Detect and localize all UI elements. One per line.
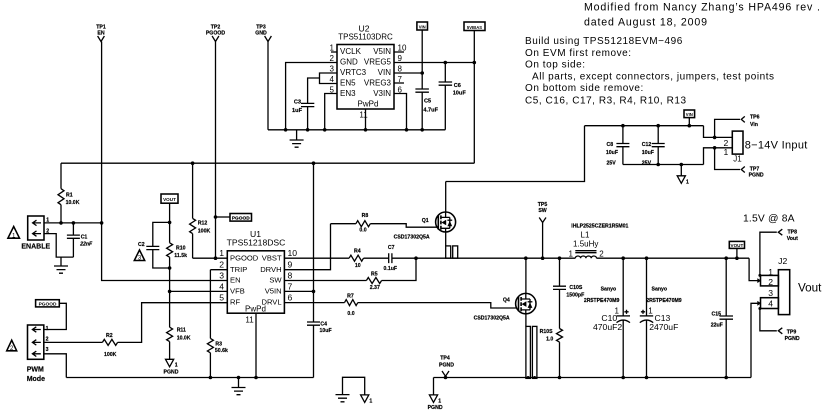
wire VOUT rail from L1	[597, 257, 750, 259]
svg-text:EN: EN	[97, 31, 104, 37]
ground tie: earth to PGND_1 bridge	[336, 377, 373, 404]
svg-text:CSD17302Q5A: CSD17302Q5A	[394, 235, 430, 241]
svg-text:PGOOD: PGOOD	[39, 302, 57, 308]
capacitor C6 10uF	[439, 82, 467, 97]
svg-text:2: 2	[219, 260, 224, 270]
svg-text:TRIP: TRIP	[230, 265, 247, 274]
pin number 3 (U2 VRTC3)	[330, 65, 335, 74]
svg-text:DRVH: DRVH	[260, 265, 281, 274]
capacitor C2	[138, 222, 170, 268]
connector J1 body	[732, 131, 743, 163]
svg-text:8: 8	[398, 65, 403, 74]
svg-text:All parts, except connectors,: All parts, except connectors, jumpers, t…	[532, 71, 775, 82]
test point TP2 (PGOOD)	[206, 25, 226, 42]
wire VOUT flag stub	[736, 248, 738, 258]
svg-text:EN3: EN3	[340, 89, 356, 98]
net-tie bars Q4 source to PGND	[526, 326, 537, 378]
OUTPUTBLOCK	[584, 214, 822, 380]
svg-text:10uF: 10uF	[320, 328, 332, 334]
svg-text:10.0K: 10.0K	[177, 336, 191, 342]
pin number 4 (U2 EN5)	[330, 75, 335, 84]
svg-text:Sanyo: Sanyo	[652, 286, 668, 292]
svg-text:C7: C7	[388, 245, 395, 251]
pin number 5 (U2 EN3)	[330, 86, 335, 95]
svg-text:1: 1	[686, 180, 689, 186]
pin number 9 (U2 VREG5)	[398, 54, 403, 63]
svg-text:IHLP2525CZER1R5M01: IHLP2525CZER1R5M01	[571, 223, 628, 229]
svg-text:dated August 18, 2009: dated August 18, 2009	[584, 17, 708, 29]
pin number 2 (U2 GND)	[330, 54, 335, 63]
svg-text:4: 4	[330, 75, 335, 84]
transistor Q4 CSD17302Q5A	[474, 293, 536, 321]
wire J1 pin1 from ground rail	[704, 148, 733, 165]
svg-text:1: 1	[438, 399, 441, 405]
svg-text:C12: C12	[642, 142, 652, 148]
wire DRVL net: U1 pin6 to R7	[284, 302, 344, 304]
svg-text:SW: SW	[538, 208, 546, 214]
svg-text:VBST: VBST	[262, 253, 282, 262]
svg-text:GND: GND	[340, 58, 358, 67]
wire input ground rail	[623, 164, 704, 166]
svg-text:1: 1	[330, 44, 335, 53]
svg-text:9: 9	[398, 54, 403, 63]
svg-text:1.0: 1.0	[546, 336, 553, 342]
svg-text:TPS51218DSC: TPS51218DSC	[227, 238, 286, 248]
net label PGOOD (flag near J3)	[36, 300, 60, 308]
capacitor C10 470uF Sanyo 2R5TPE470M9	[584, 258, 630, 377]
svg-text:4: 4	[219, 281, 224, 291]
resistor R12 100K	[190, 163, 211, 258]
test point TP3 (GND)	[255, 25, 271, 42]
svg-text:CSD17302Q5A: CSD17302Q5A	[474, 315, 510, 321]
svg-text:R2: R2	[106, 333, 113, 339]
capacitor C10S 1500pF (snubber)	[553, 258, 584, 328]
wire VIN column down through C5 to ground rail	[421, 30, 423, 130]
svg-text:1: 1	[175, 362, 178, 368]
wire Q4 drain to SW rail	[525, 258, 527, 293]
wire C3 bottom to ground rail	[307, 107, 309, 130]
wire EN net: TP1 column down to U1 pin3	[102, 42, 228, 281]
svg-text:R8: R8	[362, 213, 369, 219]
svg-text:Build using TPS51218EVM−496: Build using TPS51218EVM−496	[525, 36, 683, 47]
wire J1 pin2 from VIN rail	[704, 126, 733, 138]
capacitor C13 470uF Sanyo 2R5TPE470M9	[640, 258, 682, 377]
capacitor C5 4.7uF	[415, 89, 438, 114]
wire GND net: TP3 down to U2 ground rail	[267, 42, 269, 130]
svg-text:6: 6	[288, 293, 293, 303]
pin number 10 (U2 V5IN)	[394, 44, 407, 53]
wire EN net: J4 pin1 to TP1 column	[44, 222, 102, 224]
svg-text:TP9: TP9	[787, 330, 797, 336]
svg-text:100K: 100K	[104, 352, 117, 358]
net label 5VBIAS	[464, 22, 485, 31]
svg-text:On bottom side remove:: On bottom side remove:	[525, 83, 644, 94]
svg-text:2: 2	[768, 277, 773, 287]
svg-text:1.5uHy: 1.5uHy	[573, 240, 598, 249]
svg-text:C6: C6	[454, 83, 461, 89]
svg-text:0.0: 0.0	[347, 311, 354, 317]
svg-text:VRTC3: VRTC3	[340, 68, 367, 77]
svg-text:Q1: Q1	[422, 218, 429, 224]
U2BLOCK	[61, 22, 485, 165]
svg-text:470uF2: 470uF2	[593, 322, 622, 332]
wire R7 to Q4 gate	[358, 303, 516, 308]
svg-text:0.1uF: 0.1uF	[384, 266, 398, 272]
svg-text:10: 10	[288, 248, 298, 258]
svg-text:1: 1	[568, 249, 573, 258]
wire J3 pin3 to ground rail	[44, 354, 67, 378]
svg-text:V3IN: V3IN	[373, 89, 391, 98]
warning triangle 3	[134, 250, 144, 262]
svg-text:R10S: R10S	[540, 329, 554, 335]
svg-text:11.5k: 11.5k	[174, 253, 187, 259]
resistor R11 10.0K	[167, 291, 191, 359]
connector J3 body	[27, 325, 45, 383]
svg-text:SW: SW	[269, 276, 282, 285]
wire V5IN column from V5 rail to C4	[313, 163, 315, 377]
wire J4 pin2 to C1 bottom	[44, 234, 73, 258]
pin number 7 (U2 VREG3)	[394, 75, 404, 84]
svg-text:100K: 100K	[198, 229, 211, 235]
svg-text:2.37: 2.37	[370, 285, 380, 291]
svg-text:VOUT: VOUT	[163, 197, 176, 202]
wire VIN rail down and over to Q1 drain	[446, 126, 585, 182]
test point TP5 (SW)	[538, 202, 548, 258]
svg-text:PWM: PWM	[27, 367, 44, 374]
svg-text:2R5TPE470M9: 2R5TPE470M9	[646, 298, 682, 304]
net label VIN (above C5)	[417, 22, 428, 30]
svg-text:ENABLE: ENABLE	[21, 244, 50, 251]
warning triangle 1	[8, 227, 20, 240]
capacitor C7 0.1uF	[384, 245, 398, 272]
BOTTOM	[66, 356, 751, 411]
capacitor C8 10uF 25V	[606, 126, 630, 167]
wire Q4 source to net-tie	[525, 314, 527, 327]
ground (earth) at U2 rail	[290, 130, 304, 147]
svg-text:TP4: TP4	[440, 356, 450, 362]
ground (earth) at J4/C1	[54, 257, 68, 273]
wire R5 up to SW rail	[382, 258, 416, 280]
svg-text:PGND: PGND	[439, 363, 454, 369]
wire SW net: U1 pin8 to R5	[284, 280, 366, 282]
svg-text:10uF: 10uF	[453, 91, 467, 97]
svg-text:Modified from Nancy Zhang’s HP: Modified from Nancy Zhang’s HPA496 rev .	[584, 2, 821, 14]
wire PGOOD flag to J3 pin1	[44, 303, 67, 329]
svg-text:RF: RF	[230, 298, 240, 307]
INPUTBLOCK	[446, 110, 808, 186]
svg-text:2: 2	[46, 337, 49, 343]
node EN junction at R1/J4	[100, 221, 104, 225]
capacitor C1 22nF	[67, 223, 93, 257]
svg-text:R1: R1	[66, 193, 73, 199]
svg-text:Sanyo: Sanyo	[601, 286, 617, 292]
test point TP4 (PGND)	[439, 356, 454, 380]
svg-text:V5IN: V5IN	[265, 287, 282, 296]
svg-text:R3: R3	[215, 341, 222, 347]
svg-text:J2: J2	[778, 256, 787, 266]
wire U1 pin11 PwPd to ground rail	[255, 313, 257, 377]
svg-text:Vout: Vout	[787, 236, 798, 242]
wire VBST net: U1 pin10 to R4	[284, 257, 349, 259]
POWERSTAGE	[284, 182, 749, 380]
wire U2 pin11 PwPd to ground rail	[365, 109, 367, 130]
net-tie bars Q1 source to SW	[446, 246, 458, 258]
svg-text:VCLK: VCLK	[340, 47, 362, 56]
resistor R2 100K	[102, 333, 117, 358]
connector J4 body	[21, 216, 50, 251]
svg-text:1: 1	[648, 307, 653, 316]
test point TP1 (EN)	[96, 25, 106, 42]
wire TRIP net: U1 pin2 to R3 top	[210, 269, 227, 271]
net label VOUT (feedback)	[161, 194, 178, 203]
pin number 6 (U2 V3IN)	[398, 86, 403, 95]
svg-text:EN5: EN5	[340, 79, 356, 88]
svg-text:C1: C1	[81, 234, 88, 240]
pin number 1 (U2 VCLK)	[330, 44, 337, 53]
svg-text:1.5V @ 8A: 1.5V @ 8A	[743, 214, 795, 225]
svg-text:PGND: PGND	[749, 172, 764, 178]
U1BLOCK	[170, 163, 332, 377]
resistor R4 10	[349, 248, 363, 269]
wire PGOOD net: branch to PGOOD flag	[216, 216, 231, 218]
svg-text:VOUT: VOUT	[731, 243, 744, 248]
resistor R3 50.6k	[207, 270, 228, 378]
svg-text:VIN: VIN	[686, 112, 693, 117]
wire VOUT flag to R10 top	[169, 203, 171, 243]
svg-text:10: 10	[398, 44, 407, 53]
wire SW rail	[416, 257, 575, 259]
wire U2 ground rail	[268, 129, 445, 131]
svg-text:22uF: 22uF	[711, 322, 723, 328]
wire J3 pin2 to R2	[44, 341, 103, 343]
ic U2 TPS51103DRC body	[337, 24, 394, 120]
resistor R1 10.0K	[58, 163, 80, 223]
svg-text:VIN: VIN	[419, 25, 426, 30]
svg-text:1: 1	[46, 326, 49, 332]
svg-text:EN: EN	[230, 276, 241, 285]
svg-text:VFB: VFB	[230, 287, 245, 296]
net label VIN (input section)	[684, 110, 695, 118]
wire R8 to Q1 gate	[370, 224, 437, 228]
svg-text:PGOOD: PGOOD	[206, 31, 226, 37]
svg-text:11: 11	[245, 316, 254, 325]
wire U2 pin2 GND to ground rail	[286, 63, 337, 130]
svg-text:22nF: 22nF	[79, 242, 93, 248]
svg-text:R5: R5	[371, 271, 378, 277]
svg-text:8−14V Input: 8−14V Input	[745, 140, 808, 152]
svg-text:PGOOD: PGOOD	[230, 253, 259, 262]
wire VRTC3 branch to C3	[308, 78, 320, 103]
svg-text:C2: C2	[138, 242, 145, 248]
svg-text:7: 7	[288, 281, 293, 291]
test point TP7 (PGND)	[715, 148, 764, 179]
svg-text:5: 5	[219, 293, 224, 303]
LEFTBLOCK	[7, 163, 228, 383]
svg-text:50.6k: 50.6k	[215, 348, 228, 354]
svg-text:VIN: VIN	[378, 68, 392, 77]
svg-text:1: 1	[369, 399, 372, 405]
NOTES-TEXT	[525, 2, 821, 107]
wire VIN flag stub	[688, 118, 690, 126]
svg-text:PGND: PGND	[164, 370, 179, 376]
ground PGND_1 triangle (input)	[677, 165, 689, 186]
wire C7 to SW rail	[392, 257, 416, 259]
resistor R10S 1.0 (snubber)	[540, 329, 563, 378]
svg-text:1: 1	[724, 147, 729, 157]
resistor R10 11.5k	[167, 243, 188, 292]
svg-text:L1: L1	[581, 230, 590, 239]
svg-text:8: 8	[288, 271, 293, 281]
svg-text:Q4: Q4	[503, 297, 510, 303]
wire Q1 drain to VIN	[445, 182, 447, 213]
capacitor C15 22uF	[711, 258, 733, 377]
wire U2 pin8 VIN to VIN column	[394, 72, 422, 74]
test point TP9 (PGND)	[760, 309, 800, 343]
capacitor C4 10uF	[307, 321, 332, 334]
svg-text:10uF: 10uF	[606, 150, 618, 156]
TESTPOINTS-TOP	[96, 25, 271, 281]
svg-text:TPS51103DRC: TPS51103DRC	[338, 33, 393, 42]
svg-text:R12: R12	[198, 220, 208, 226]
svg-text:2R5TPE470M9: 2R5TPE470M9	[584, 298, 620, 304]
svg-text:GND: GND	[255, 31, 267, 37]
svg-text:2470uF: 2470uF	[649, 322, 678, 332]
wire C6 column	[444, 63, 446, 130]
svg-text:1: 1	[768, 267, 773, 277]
svg-text:C15: C15	[712, 311, 722, 317]
capacitor C12 10uF 25V	[642, 126, 665, 167]
wire VIN top rail	[585, 125, 704, 127]
wire U2 pin5 EN3 to ground rail	[325, 94, 337, 130]
svg-text:10.0K: 10.0K	[66, 200, 80, 206]
wire V5 rail (5VBIAS distribution)	[61, 162, 474, 164]
wire VFB net: U1 pin4 to divider	[170, 290, 228, 292]
svg-text:Vin: Vin	[750, 122, 758, 128]
resistor R5 2.37	[366, 271, 381, 291]
svg-text:25V: 25V	[607, 160, 617, 166]
capacitor C3 1uF	[292, 100, 314, 115]
svg-text:10uF: 10uF	[642, 150, 654, 156]
svg-text:1uF: 1uF	[292, 108, 303, 114]
wire U1 pin7 V5IN stub	[284, 290, 313, 292]
svg-text:10: 10	[355, 263, 361, 269]
wire analog ground rail (left)	[66, 377, 313, 379]
wire Q1 source to net-tie	[445, 232, 447, 246]
svg-text:1: 1	[12, 232, 16, 239]
svg-text:R10: R10	[176, 245, 186, 251]
inductor L1 1.5uHy IHLP2525CZER1R5M01	[568, 223, 628, 258]
svg-text:4: 4	[768, 298, 773, 308]
wire U2 pin6 V3IN to ground rail	[394, 94, 407, 130]
connector J2 body	[761, 256, 790, 315]
wire DRVH net: U1 pin9 up to R8	[284, 224, 330, 270]
svg-text:3: 3	[768, 288, 773, 298]
svg-text:C8: C8	[607, 142, 614, 148]
svg-text:3: 3	[46, 347, 49, 353]
pin number 8 (U2 VIN)	[398, 65, 403, 74]
svg-text:R7: R7	[347, 293, 354, 299]
wire U2 pin3/pin4 tie (VRTC3-EN5)	[320, 73, 338, 84]
svg-text:PwPd: PwPd	[245, 305, 266, 314]
resistor R8 0.0	[331, 213, 371, 233]
svg-text:C5: C5	[424, 99, 431, 105]
transistor Q1 CSD17302Q5A	[394, 212, 456, 241]
svg-text:PwPd: PwPd	[358, 100, 379, 109]
svg-text:On EVM first remove:: On EVM first remove:	[525, 48, 632, 59]
svg-text:0.0: 0.0	[359, 227, 366, 233]
svg-text:3: 3	[219, 271, 224, 281]
wire 5VBIAS column down to V5 rail	[473, 31, 475, 164]
svg-text:VREG3: VREG3	[364, 79, 392, 88]
svg-text:Vout: Vout	[798, 282, 822, 295]
svg-text:PGOOD: PGOOD	[232, 216, 250, 222]
svg-text:4.7uF: 4.7uF	[423, 108, 438, 114]
svg-text:PGND: PGND	[428, 405, 443, 411]
svg-text:TP6: TP6	[750, 115, 760, 121]
svg-text:Mode: Mode	[27, 376, 45, 383]
svg-text:C10S: C10S	[569, 285, 583, 291]
svg-text:C4: C4	[320, 321, 327, 327]
svg-text:11: 11	[359, 111, 368, 120]
svg-text:PGND: PGND	[785, 336, 800, 342]
svg-text:C5, C16, C17, R3, R4, R10, R13: C5, C16, C17, R3, R4, R10, R13	[525, 95, 687, 106]
svg-text:2: 2	[330, 54, 335, 63]
svg-text:1: 1	[219, 248, 224, 258]
svg-text:C3: C3	[294, 100, 301, 106]
ground PGND_1 triangle (TP4 rail)	[428, 378, 443, 411]
svg-text:2: 2	[599, 249, 604, 258]
svg-text:R4: R4	[354, 248, 361, 254]
svg-text:TP8: TP8	[788, 230, 798, 236]
wire PGOOD net: R12 bottom to U1 pin1	[193, 257, 228, 259]
svg-text:On top side:: On top side:	[525, 59, 586, 70]
ic U1 TPS51218DSC body	[227, 229, 286, 325]
wire power ground rail (right)	[434, 377, 752, 379]
svg-text:25V: 25V	[642, 160, 652, 166]
wire RF net: R2 to U1 pin5	[118, 303, 228, 343]
wire VOUT rail to J2 pin2	[749, 258, 759, 280]
svg-text:1500pF: 1500pF	[566, 293, 584, 299]
ground (earth) at U1 rail	[232, 378, 246, 395]
net label VOUT (output)	[729, 241, 744, 248]
svg-text:3: 3	[330, 65, 335, 74]
warning triangle 2	[7, 340, 17, 352]
ground PGND_1 triangle (R11)	[164, 359, 179, 375]
svg-text:9: 9	[288, 260, 293, 270]
net label PGOOD (flag near U1)	[230, 214, 252, 222]
wire PGOOD net: TP2 column down to U1 pin1 wire	[215, 42, 217, 259]
svg-text:J1: J1	[733, 155, 742, 164]
wire PGND to J2 pin4	[751, 303, 760, 377]
test point TP8 (Vout)	[760, 229, 798, 275]
test point TP6 (Vin)	[715, 115, 760, 138]
svg-text:V5IN: V5IN	[373, 47, 391, 56]
svg-text:R11: R11	[177, 327, 186, 333]
resistor R7 0.0	[345, 293, 358, 317]
svg-text:5VBIAS: 5VBIAS	[467, 25, 482, 30]
svg-text:VREG5: VREG5	[364, 58, 392, 67]
wire U2 pin9 VREG5 to 5VBIAS column	[394, 62, 474, 64]
wire R4 to C7	[364, 257, 389, 259]
